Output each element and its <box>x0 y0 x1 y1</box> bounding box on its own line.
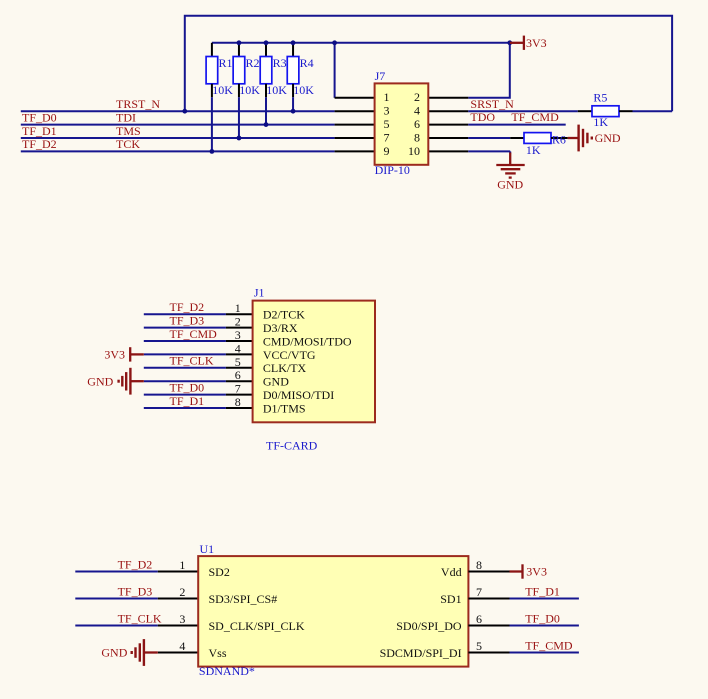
svg-text:CMD/MOSI/TDO: CMD/MOSI/TDO <box>263 334 352 348</box>
svg-text:TF_CMD: TF_CMD <box>511 110 559 124</box>
svg-text:1: 1 <box>179 558 185 572</box>
svg-text:R1: R1 <box>219 56 233 70</box>
svg-text:J1: J1 <box>254 286 265 300</box>
svg-text:R6: R6 <box>552 133 566 147</box>
svg-text:GND: GND <box>263 375 289 389</box>
svg-text:Vss: Vss <box>209 646 227 660</box>
svg-text:4: 4 <box>414 104 420 118</box>
svg-text:GND: GND <box>101 646 127 660</box>
svg-text:10K: 10K <box>239 83 260 97</box>
svg-text:TF_D1: TF_D1 <box>170 394 205 408</box>
svg-text:D0/MISO/TDI: D0/MISO/TDI <box>263 388 334 402</box>
svg-text:TF_D3: TF_D3 <box>118 584 153 598</box>
svg-text:TF_D3: TF_D3 <box>170 313 205 327</box>
svg-text:TF_CLK: TF_CLK <box>170 354 214 368</box>
svg-text:1K: 1K <box>526 143 541 157</box>
svg-text:SD0/SPI_DO: SD0/SPI_DO <box>396 619 462 633</box>
svg-text:7: 7 <box>476 585 482 599</box>
svg-text:6: 6 <box>476 612 482 626</box>
svg-text:1K: 1K <box>593 115 608 129</box>
svg-text:3V3: 3V3 <box>104 348 125 362</box>
svg-text:SD1: SD1 <box>440 592 461 606</box>
svg-text:R2: R2 <box>246 56 260 70</box>
svg-text:TF_D0: TF_D0 <box>22 110 57 124</box>
svg-text:2: 2 <box>179 585 185 599</box>
svg-text:TF_CLK: TF_CLK <box>118 611 162 625</box>
svg-text:3: 3 <box>384 104 390 118</box>
svg-text:R4: R4 <box>300 56 314 70</box>
svg-text:J7: J7 <box>375 69 386 83</box>
svg-text:TF_D1: TF_D1 <box>525 584 560 598</box>
svg-text:U1: U1 <box>200 542 215 556</box>
svg-text:Vdd: Vdd <box>441 565 462 579</box>
svg-text:6: 6 <box>414 117 420 131</box>
svg-text:SDCMD/SPI_DI: SDCMD/SPI_DI <box>380 646 462 660</box>
svg-text:3: 3 <box>179 612 185 626</box>
svg-text:3V3: 3V3 <box>526 36 547 50</box>
svg-text:SD2: SD2 <box>209 565 230 579</box>
svg-text:8: 8 <box>235 395 241 409</box>
svg-text:9: 9 <box>384 144 390 158</box>
svg-text:10K: 10K <box>266 83 287 97</box>
svg-text:7: 7 <box>235 382 241 396</box>
svg-text:TF_D0: TF_D0 <box>525 611 560 625</box>
svg-text:D3/RX: D3/RX <box>263 321 298 335</box>
svg-text:DIP-10: DIP-10 <box>375 163 410 177</box>
svg-text:TF_CMD: TF_CMD <box>525 638 573 652</box>
svg-text:8: 8 <box>476 558 482 572</box>
svg-text:10: 10 <box>408 144 420 158</box>
svg-text:VCC/VTG: VCC/VTG <box>263 348 316 362</box>
svg-text:TDI: TDI <box>116 110 136 124</box>
svg-text:TCK: TCK <box>116 137 140 151</box>
svg-text:4: 4 <box>179 639 185 653</box>
svg-text:TF_D2: TF_D2 <box>22 137 57 151</box>
svg-text:2: 2 <box>414 90 420 104</box>
svg-text:5: 5 <box>476 639 482 653</box>
svg-text:GND: GND <box>87 374 113 388</box>
svg-text:SD_CLK/SPI_CLK: SD_CLK/SPI_CLK <box>209 619 305 633</box>
svg-text:3V3: 3V3 <box>526 565 547 579</box>
svg-text:SD3/SPI_CS#: SD3/SPI_CS# <box>209 592 278 606</box>
svg-text:TF-CARD: TF-CARD <box>266 438 318 452</box>
svg-text:TF_D0: TF_D0 <box>170 380 205 394</box>
svg-text:TDO: TDO <box>470 110 495 124</box>
svg-text:TMS: TMS <box>116 124 141 138</box>
svg-text:8: 8 <box>414 130 420 144</box>
svg-text:1: 1 <box>235 301 241 315</box>
svg-text:7: 7 <box>384 130 390 144</box>
svg-text:1: 1 <box>384 90 390 104</box>
svg-text:10K: 10K <box>293 83 314 97</box>
svg-text:GND: GND <box>497 177 523 191</box>
svg-text:2: 2 <box>235 315 241 329</box>
svg-text:D1/TMS: D1/TMS <box>263 401 306 415</box>
svg-text:6: 6 <box>235 368 241 382</box>
svg-text:TF_D2: TF_D2 <box>170 300 205 314</box>
svg-text:3: 3 <box>235 328 241 342</box>
svg-text:SDNAND*: SDNAND* <box>199 664 255 678</box>
svg-text:10K: 10K <box>212 83 233 97</box>
svg-text:D2/TCK: D2/TCK <box>263 308 305 322</box>
svg-text:TRST_N: TRST_N <box>116 97 160 111</box>
svg-text:R3: R3 <box>273 56 287 70</box>
svg-text:5: 5 <box>384 117 390 131</box>
svg-text:TF_D1: TF_D1 <box>22 124 57 138</box>
svg-text:CLK/TX: CLK/TX <box>263 361 307 375</box>
svg-text:SRST_N: SRST_N <box>470 97 514 111</box>
svg-text:TF_CMD: TF_CMD <box>170 327 218 341</box>
svg-text:4: 4 <box>235 341 241 355</box>
svg-text:TF_D2: TF_D2 <box>118 557 153 571</box>
svg-text:R5: R5 <box>593 90 607 104</box>
svg-text:GND: GND <box>595 131 621 145</box>
svg-text:5: 5 <box>235 355 241 369</box>
